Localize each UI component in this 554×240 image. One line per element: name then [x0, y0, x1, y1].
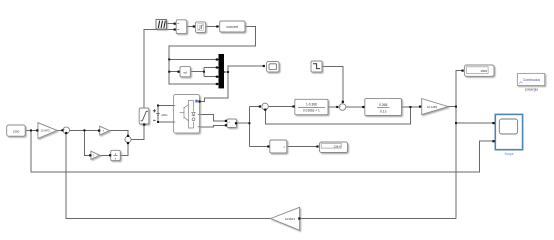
- svg-text:10.0472: 10.0472: [41, 129, 51, 133]
- svg-text:136.4: 136.4: [334, 144, 341, 148]
- svg-text:1500: 1500: [13, 129, 20, 133]
- svg-text:powergui: powergui: [525, 87, 538, 91]
- svg-text:10/2013: 10/2013: [285, 217, 296, 221]
- svg-text:1500: 1500: [480, 69, 487, 73]
- svg-text:10.1459: 10.1459: [427, 105, 438, 109]
- svg-text:1-0.368: 1-0.368: [306, 103, 317, 107]
- svg-text:0.0166s + 1: 0.0166s + 1: [303, 109, 320, 113]
- svg-text:scf: scf: [183, 70, 187, 74]
- svg-text:Scope: Scope: [504, 152, 513, 156]
- svg-text:-: -: [342, 103, 343, 106]
- svg-text:0.368: 0.368: [379, 103, 388, 107]
- svg-text:220v: 220v: [161, 113, 168, 117]
- svg-text:Continuous: Continuous: [523, 78, 540, 82]
- svg-text:convert: convert: [226, 25, 238, 29]
- svg-text:0.1s: 0.1s: [380, 109, 387, 113]
